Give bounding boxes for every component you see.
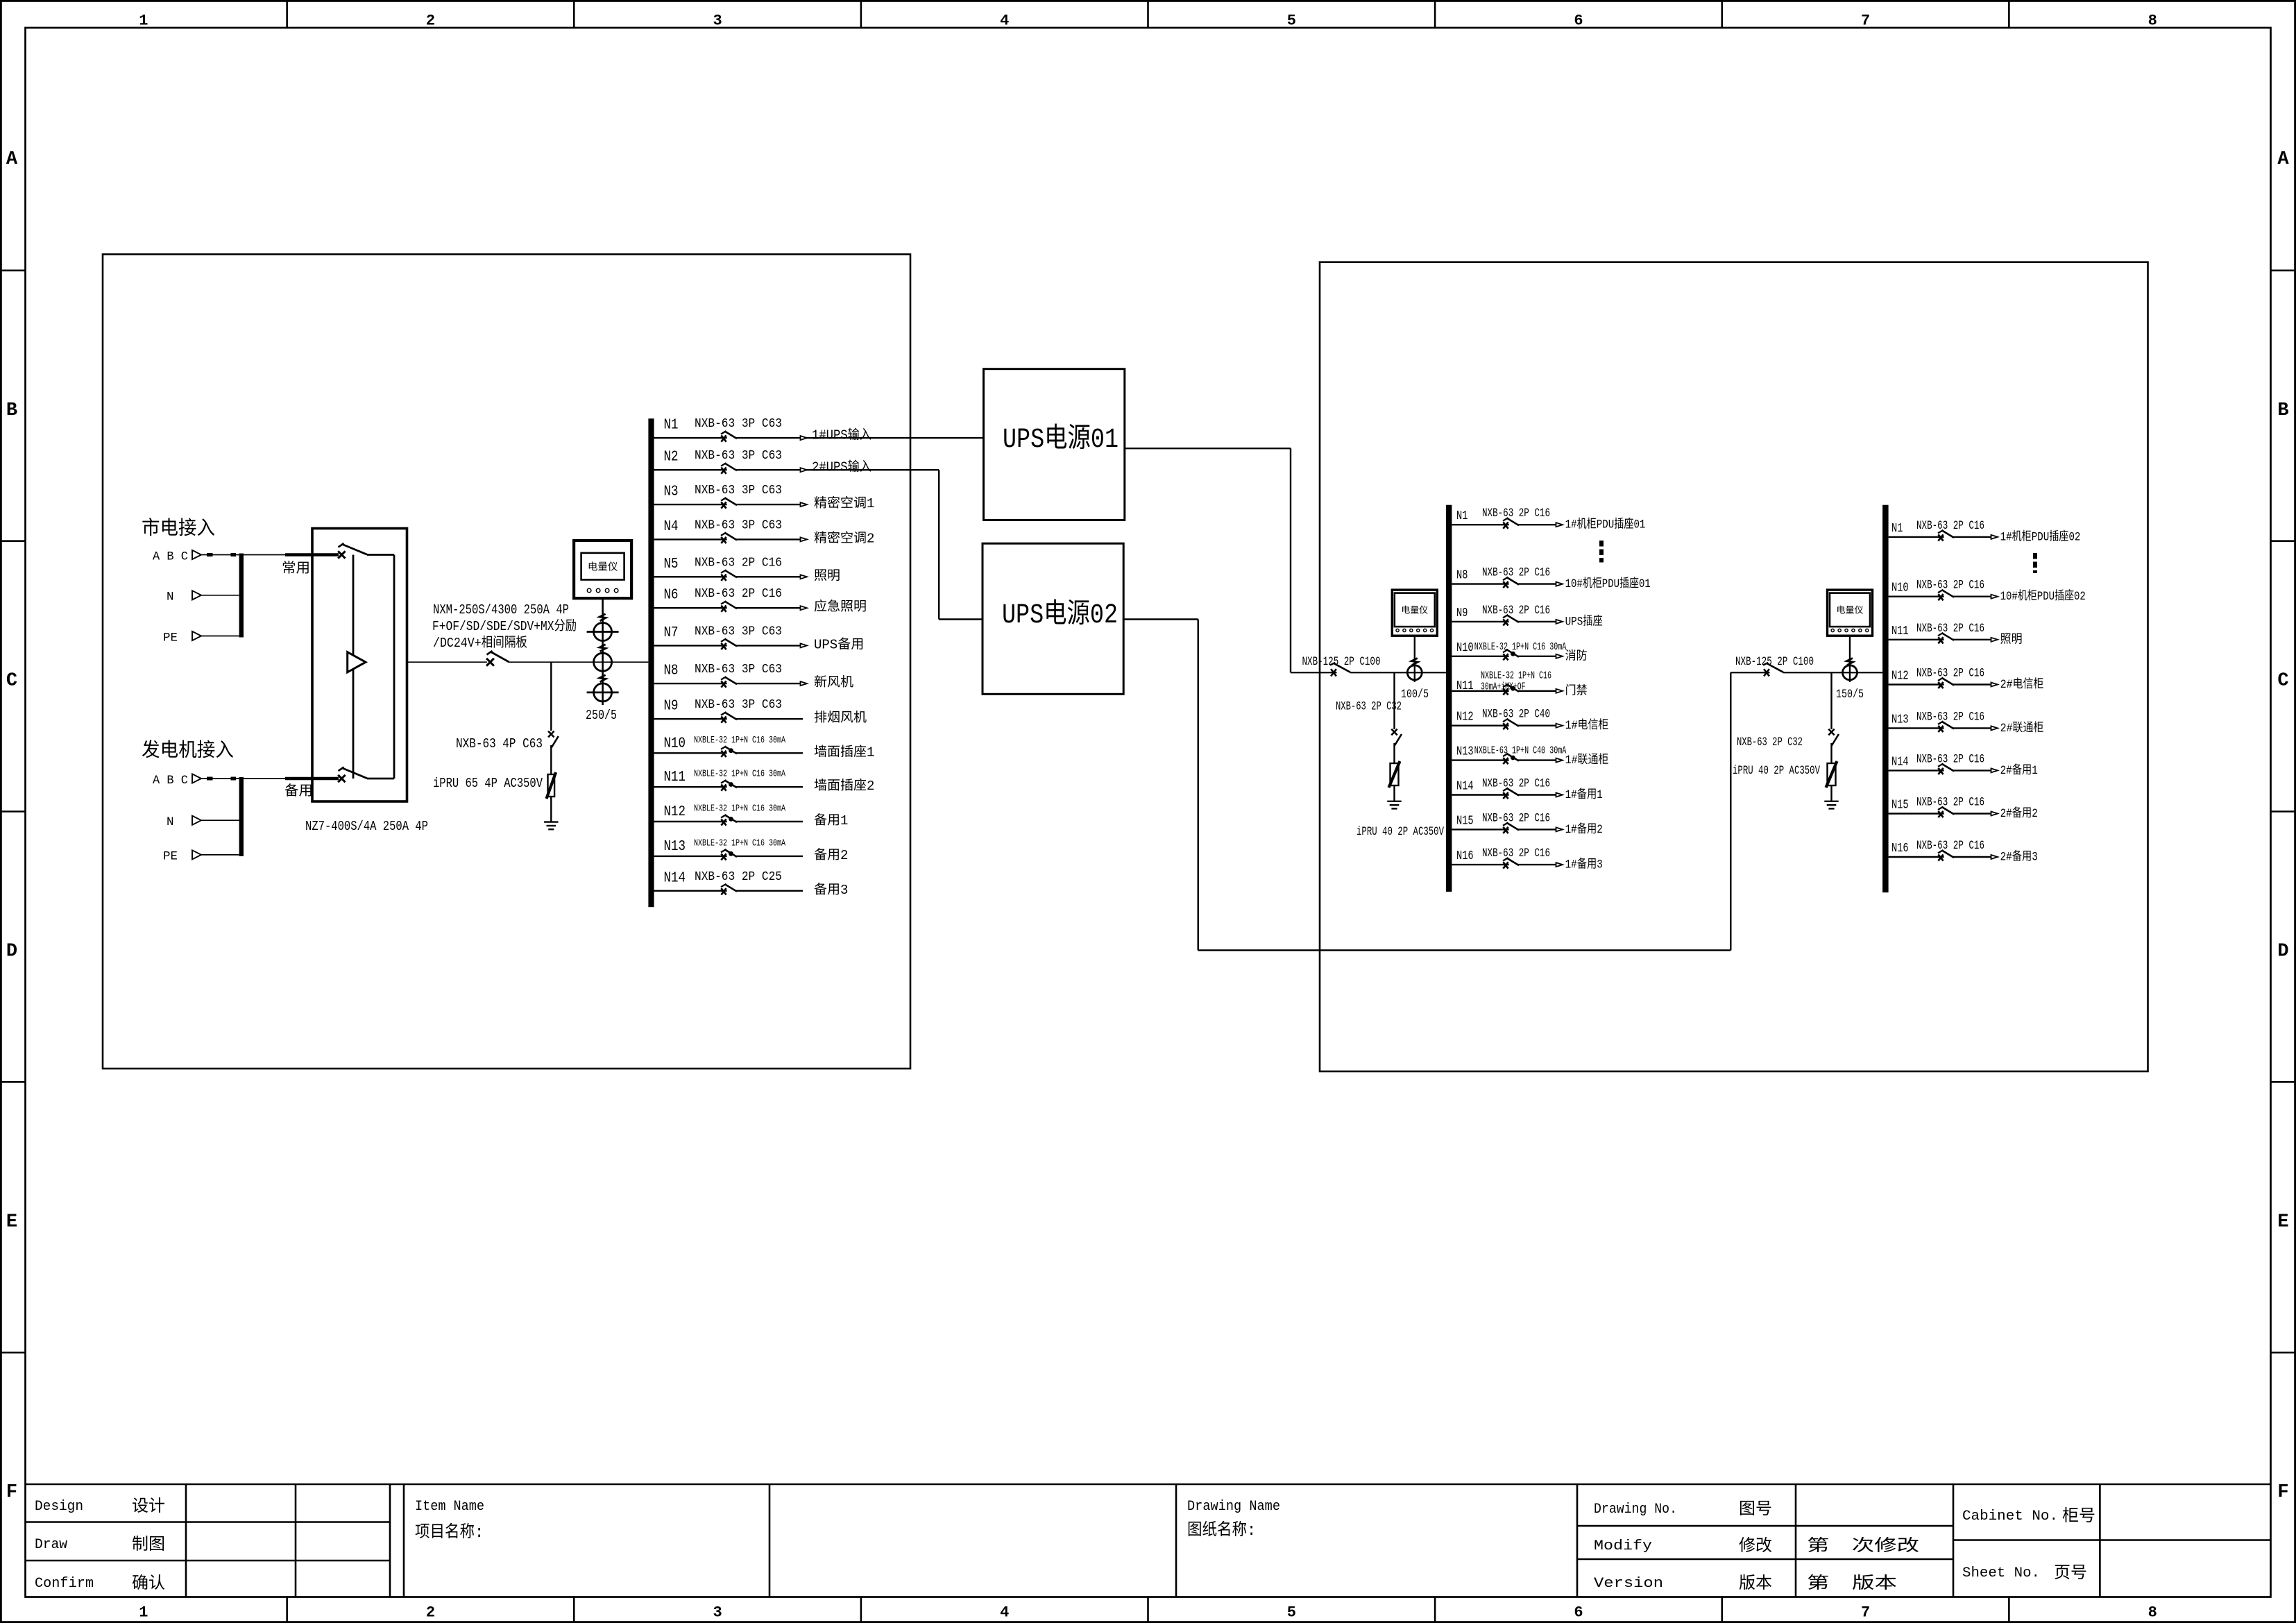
- wire N to generator bus: [201, 819, 239, 821]
- svg-text:A B C: A B C: [153, 774, 188, 788]
- svg-text:第 次修改: 第 次修改: [1807, 1536, 1919, 1556]
- svg-text:NXB-63 3P C63: NXB-63 3P C63: [695, 417, 782, 431]
- svg-text:1#备用1: 1#备用1: [1565, 788, 1603, 802]
- svg-text:门禁: 门禁: [1565, 683, 1588, 698]
- svg-text:NXM-250S/4300 250A 4P: NXM-250S/4300 250A 4P: [433, 602, 569, 618]
- panel-2 feeder N11 -> 照明: [1889, 622, 2023, 647]
- svg-text:PE: PE: [163, 631, 178, 645]
- svg-text:B: B: [6, 400, 17, 421]
- svg-text:NXB-63 3P C63: NXB-63 3P C63: [695, 484, 782, 498]
- svg-text:NXB-63 3P C63: NXB-63 3P C63: [695, 449, 782, 463]
- wire to SPD breaker panel-1: [1393, 672, 1395, 729]
- surge arrester iPRU 40 panel-1: [1389, 761, 1400, 788]
- svg-text:N3: N3: [664, 484, 679, 500]
- meter secondary wire through CTs: [602, 598, 604, 705]
- feeder N13 (NXBLE-32 1P+N C16 30mA) -> 备用2: [654, 838, 849, 863]
- svg-text:2#UPS输入: 2#UPS输入: [812, 459, 871, 475]
- svg-text:NXB-63 2P C16: NXB-63 2P C16: [695, 587, 782, 601]
- title block grid: [26, 1484, 2271, 1597]
- terminal arrow N (generator): [192, 816, 201, 825]
- label iPRU 40 2P AC350V panel-2: [1733, 764, 1820, 778]
- svg-text:iPRU 65 4P AC350V: iPRU 65 4P AC350V: [433, 776, 543, 791]
- svg-text:5: 5: [1287, 12, 1296, 30]
- wire ABC to mains bus (with link dashes): [201, 554, 239, 556]
- svg-text:NXB-63 2P C16: NXB-63 2P C16: [1916, 579, 1984, 593]
- svg-text:UPS电源01: UPS电源01: [1003, 423, 1119, 456]
- wire N2 feeder routed down to UPS02 input: [939, 470, 983, 619]
- feeder N5 (NXB-63 2P C16) -> 照明: [654, 556, 840, 584]
- wire to SPD breaker panel-2: [1830, 672, 1832, 729]
- svg-text:排烟风机: 排烟风机: [814, 711, 867, 726]
- label NZ7-400S/4A 250A 4P: [305, 819, 428, 834]
- distribution bus bar (main board): [648, 418, 654, 907]
- svg-text:NXB-63 2P C16: NXB-63 2P C16: [1916, 667, 1984, 681]
- svg-text:电量仪: 电量仪: [1836, 605, 1863, 615]
- svg-text:NXBLE-32 1P+N C16 30mA: NXBLE-32 1P+N C16 30mA: [694, 804, 785, 815]
- svg-text:N8: N8: [664, 663, 679, 679]
- svg-text:N10: N10: [664, 736, 686, 751]
- mains terminal bus bar: [239, 554, 244, 638]
- svg-text:N12: N12: [1891, 670, 1909, 683]
- feeder N1 (NXB-63 3P C63) -> 1#UPS输入: [654, 417, 984, 443]
- svg-text:iPRU 40 2P AC350V: iPRU 40 2P AC350V: [1357, 825, 1444, 839]
- svg-text:8: 8: [2148, 1604, 2157, 1622]
- svg-text:Modify: Modify: [1594, 1538, 1652, 1554]
- svg-text:NXBLE-32 1P+N C16 30mA: NXBLE-32 1P+N C16 30mA: [694, 735, 785, 746]
- svg-text:NXB-63 2P C16: NXB-63 2P C16: [1916, 710, 1984, 724]
- power meter 电量仪 panel-2: [1828, 590, 1873, 636]
- incomer breaker contact panel-2: [1763, 663, 1783, 677]
- svg-text:N4: N4: [664, 519, 679, 535]
- wire PE to mains bus: [201, 636, 239, 637]
- svg-text:消防: 消防: [1565, 649, 1588, 663]
- svg-text:设计: 设计: [132, 1497, 165, 1517]
- svg-text:4: 4: [1000, 1604, 1009, 1622]
- surge arrester iPRU 40 panel-2: [1826, 761, 1837, 788]
- current transformer CT3 250/5: [587, 683, 619, 702]
- svg-text:备用2: 备用2: [814, 847, 848, 863]
- svg-text:精密空调1: 精密空调1: [814, 495, 874, 511]
- label 备用 (standby source): [284, 783, 313, 800]
- meter wire panel-2: [1849, 636, 1851, 682]
- feeder N6 (NXB-63 2P C16) -> 应急照明: [654, 587, 867, 615]
- svg-text:NXBLE-32 1P+N C16 30mA: NXBLE-32 1P+N C16 30mA: [694, 838, 785, 849]
- svg-text:/DC24V+相间隔板: /DC24V+相间隔板: [433, 635, 527, 651]
- label 常用 (normal source): [282, 561, 310, 577]
- label phases A B C (mains): [153, 550, 188, 563]
- svg-text:1: 1: [139, 12, 148, 30]
- wire SPD breaker to arrester panel-2: [1830, 743, 1832, 763]
- generator terminal bus bar: [239, 777, 244, 856]
- svg-text:NXB-63 2P C16: NXB-63 2P C16: [1482, 811, 1550, 825]
- UPS distribution cabinet enclosure box: [1320, 262, 2148, 1071]
- label generator input 发电机接入: [142, 740, 234, 763]
- svg-text:NXB-63 2P C40: NXB-63 2P C40: [1482, 708, 1550, 722]
- wire ATS output to main breaker: [407, 661, 487, 663]
- svg-text:N14: N14: [1456, 780, 1474, 794]
- svg-text:A B C: A B C: [153, 550, 188, 563]
- SPD breaker NXB-63 2P C32 contact panel-2: [1828, 729, 1839, 746]
- svg-text:C: C: [2277, 671, 2288, 692]
- terminal arrow N (mains): [192, 590, 201, 600]
- svg-text:NXB-63 3P C63: NXB-63 3P C63: [695, 624, 782, 638]
- SPD breaker NXB-63 2P C32 contact panel-1: [1391, 729, 1402, 746]
- svg-text:Item Name: Item Name: [415, 1499, 484, 1515]
- svg-text:电量仪: 电量仪: [1401, 605, 1428, 615]
- svg-text:2#备用2: 2#备用2: [2000, 806, 2038, 821]
- panel-1 feeder N11 -> 门禁: [1452, 670, 1587, 698]
- panel-2 feeder N10 -> 10#机柜PDU插座02: [1889, 579, 2086, 604]
- svg-text:NXB-63 2P C16: NXB-63 2P C16: [1916, 839, 1984, 853]
- svg-text:150/5: 150/5: [1836, 688, 1864, 702]
- panel-1 feeder N10 -> 消防: [1452, 641, 1587, 664]
- feeder N7 (NXB-63 3P C63) -> UPS备用: [654, 624, 865, 652]
- svg-text:版本: 版本: [1739, 1574, 1772, 1594]
- svg-text:7: 7: [1861, 12, 1870, 30]
- svg-text:N12: N12: [1456, 711, 1474, 724]
- svg-text:1#UPS输入: 1#UPS输入: [812, 427, 871, 443]
- label NXB-63 4P C63: [456, 736, 543, 751]
- panel-2 feeder N15 -> 2#备用2: [1889, 796, 2038, 822]
- feeder N4 (NXB-63 3P C63) -> 精密空调2: [654, 518, 875, 546]
- svg-text:Cabinet No.: Cabinet No.: [1962, 1509, 2058, 1524]
- svg-text:N11: N11: [1891, 624, 1909, 638]
- svg-text:N13: N13: [1456, 745, 1474, 759]
- svg-text:N16: N16: [1456, 849, 1474, 863]
- title block labels: [35, 1497, 2095, 1594]
- label PE (mains): [163, 631, 178, 645]
- svg-text:2#联通柜: 2#联通柜: [2000, 721, 2044, 736]
- svg-text:照明: 照明: [814, 568, 840, 584]
- svg-text:2#备用3: 2#备用3: [2000, 850, 2038, 865]
- svg-text:常用: 常用: [282, 561, 310, 577]
- label iPRU 65 4P AC350V: [433, 776, 543, 791]
- label N (mains): [167, 590, 174, 604]
- svg-text:NXB-63 3P C63: NXB-63 3P C63: [695, 663, 782, 677]
- SPD breaker NXB-63 4P C63 contact: [548, 731, 559, 748]
- svg-text:N14: N14: [664, 870, 686, 886]
- svg-text:6: 6: [1574, 12, 1583, 30]
- svg-text:照明: 照明: [2000, 633, 2023, 647]
- UPS unit 01 box: [984, 369, 1125, 520]
- svg-text:1#电信柜: 1#电信柜: [1565, 718, 1609, 733]
- svg-text:N11: N11: [664, 770, 686, 785]
- current transformer 150/5 panel-2: [1843, 665, 1857, 680]
- svg-text:备用3: 备用3: [814, 882, 848, 898]
- wire PE to generator bus: [201, 854, 239, 856]
- ATS transfer switch NZ7-400S/4A: [312, 529, 407, 802]
- UPS unit 02 box: [983, 543, 1123, 694]
- terminal arrow PE (mains): [192, 631, 201, 640]
- svg-text:UPS备用: UPS备用: [814, 636, 864, 652]
- svg-text:N1: N1: [1891, 522, 1903, 536]
- svg-text:NXBLE-32 1P+N C16 30mA: NXBLE-32 1P+N C16 30mA: [694, 769, 785, 780]
- svg-text:UPS电源02: UPS电源02: [1002, 599, 1118, 631]
- svg-text:NXB-63 2P C16: NXB-63 2P C16: [1482, 604, 1550, 618]
- svg-text:N9: N9: [1456, 606, 1468, 620]
- svg-text:NXB-63 2P C32: NXB-63 2P C32: [1336, 700, 1402, 714]
- panel-2 feeder N16 -> 2#备用3: [1889, 839, 2038, 865]
- main LV board enclosure box: [103, 255, 910, 1069]
- svg-text:1#机柜PDU插座02: 1#机柜PDU插座02: [2000, 529, 2081, 544]
- CT squiggle panel-1: [1411, 658, 1418, 665]
- svg-text:第 版本: 第 版本: [1807, 1574, 1897, 1594]
- svg-text:Confirm: Confirm: [35, 1576, 94, 1592]
- feeder N10 (NXBLE-32 1P+N C16 30mA) -> 墙面插座1: [654, 735, 875, 760]
- distribution bus bar panel-1: [1446, 505, 1452, 892]
- label phases A B C (generator): [153, 774, 188, 788]
- svg-text:1: 1: [139, 1604, 148, 1622]
- svg-text:项目名称:: 项目名称:: [415, 1522, 484, 1543]
- terminal arrow PE (generator): [192, 850, 201, 859]
- svg-text:1#机柜PDU插座01: 1#机柜PDU插座01: [1565, 518, 1646, 532]
- feeder N11 (NXBLE-32 1P+N C16 30mA) -> 墙面插座2: [654, 769, 875, 794]
- svg-text:NXB-63 4P C63: NXB-63 4P C63: [456, 736, 543, 751]
- svg-text:NXB-63 2P C25: NXB-63 2P C25: [695, 870, 782, 884]
- current transformer CT1 250/5: [587, 623, 619, 641]
- svg-text:N14: N14: [1891, 755, 1909, 769]
- label NXM-250S/4300 250A 4P trip options: [432, 602, 577, 651]
- svg-text:4: 4: [1000, 12, 1009, 30]
- svg-text:Drawing No.: Drawing No.: [1594, 1502, 1677, 1518]
- panel-2 feeder N14 -> 2#备用1: [1889, 752, 2038, 778]
- svg-text:N: N: [167, 815, 174, 829]
- svg-text:NXB-63 2P C16: NXB-63 2P C16: [1482, 566, 1550, 580]
- svg-text:NXB-63 2P C16: NXB-63 2P C16: [1482, 847, 1550, 860]
- distribution bus bar panel-2: [1882, 505, 1889, 892]
- panel-1 feeder N15 -> 1#备用2: [1452, 811, 1602, 837]
- panel-1 feeder N14 -> 1#备用1: [1452, 777, 1602, 803]
- svg-text:E: E: [6, 1212, 17, 1232]
- svg-text:Sheet No.: Sheet No.: [1962, 1565, 2040, 1581]
- panel-1 feeder N12 -> 1#电信柜: [1452, 708, 1608, 733]
- svg-text:NXB-63 3P C63: NXB-63 3P C63: [695, 518, 782, 532]
- wire SPD breaker to arrester: [550, 745, 552, 774]
- svg-text:N5: N5: [664, 556, 679, 572]
- panel-2 feeder N1 -> 1#机柜PDU插座02: [1889, 519, 2081, 545]
- wire arrester to ground panel-1: [1393, 785, 1395, 801]
- svg-text:C: C: [6, 671, 17, 692]
- svg-text:D: D: [6, 941, 17, 962]
- label PE (generator): [163, 850, 178, 864]
- label NXB-63 2P C32 panel-2: [1737, 736, 1803, 749]
- label mains input 市电接入: [142, 518, 215, 541]
- svg-text:NXB-63 2P C16: NXB-63 2P C16: [1916, 796, 1984, 810]
- svg-text:3: 3: [713, 1604, 722, 1622]
- svg-text:6: 6: [1574, 1604, 1583, 1622]
- svg-text:2: 2: [426, 12, 435, 30]
- svg-text:N10: N10: [1891, 581, 1909, 595]
- svg-text:F: F: [6, 1482, 17, 1503]
- wire UPS01 output to panel-1 incomer: [1125, 448, 1291, 672]
- svg-text:N1: N1: [664, 418, 679, 434]
- svg-text:1#联通柜: 1#联通柜: [1565, 753, 1609, 767]
- svg-text:Version: Version: [1594, 1576, 1663, 1592]
- svg-text:发电机接入: 发电机接入: [142, 740, 234, 763]
- label NXB-125 2P C100 panel-1: [1302, 655, 1381, 669]
- svg-text:墙面插座1: 墙面插座1: [814, 744, 874, 760]
- panel-1 feeder N9 -> UPS插座: [1452, 604, 1602, 629]
- svg-text:N13: N13: [1891, 713, 1909, 726]
- svg-text:A: A: [6, 149, 18, 170]
- svg-text:10#机柜PDU插座02: 10#机柜PDU插座02: [2000, 589, 2086, 604]
- feeder N3 (NXB-63 3P C63) -> 精密空调1: [654, 484, 875, 511]
- svg-text:备用1: 备用1: [814, 813, 848, 829]
- svg-text:5: 5: [1287, 1604, 1296, 1622]
- panel-1 feeder N1 -> 1#机柜PDU插座01: [1452, 507, 1645, 532]
- svg-text:N: N: [167, 590, 174, 604]
- svg-text:页号: 页号: [2054, 1564, 2087, 1583]
- svg-text:NXB-63 3P C63: NXB-63 3P C63: [695, 698, 782, 712]
- svg-text:2#电信柜: 2#电信柜: [2000, 677, 2044, 692]
- svg-text:250/5: 250/5: [586, 708, 617, 723]
- wire ABC to generator bus (with link dashes): [201, 778, 239, 779]
- svg-text:NXBLE-32 1P+N C16 30mA: NXBLE-32 1P+N C16 30mA: [1474, 642, 1567, 653]
- svg-text:1#备用3: 1#备用3: [1565, 858, 1603, 872]
- svg-text:N1: N1: [1456, 509, 1468, 523]
- panel-2 omitted feeders continuation mark: [2033, 553, 2037, 573]
- svg-text:F+OF/SD/SDE/SDV+MX分励: F+OF/SD/SDE/SDV+MX分励: [432, 618, 577, 634]
- svg-text:10#机柜PDU插座01: 10#机柜PDU插座01: [1565, 577, 1651, 591]
- svg-text:A: A: [2277, 149, 2289, 170]
- svg-text:UPS插座: UPS插座: [1565, 614, 1603, 629]
- svg-text:D: D: [2277, 941, 2288, 962]
- svg-text:N9: N9: [664, 699, 679, 715]
- label iPRU 40 2P AC350V panel-1: [1357, 825, 1444, 839]
- CT secondary squiggle 1: [599, 614, 606, 621]
- svg-text:图纸名称:: 图纸名称:: [1187, 1520, 1256, 1540]
- wire SPD breaker to arrester panel-1: [1393, 743, 1395, 763]
- label N (generator): [167, 815, 174, 829]
- wire N to mains bus: [201, 595, 239, 596]
- svg-text:N15: N15: [1891, 799, 1909, 813]
- svg-text:NXB-63 2P C16: NXB-63 2P C16: [1916, 752, 1984, 766]
- svg-text:精密空调2: 精密空调2: [814, 530, 874, 546]
- svg-text:N8: N8: [1456, 569, 1468, 583]
- svg-text:修改: 修改: [1739, 1536, 1772, 1556]
- meter wire panel-1: [1414, 636, 1415, 682]
- panel-1 feeder N13 -> 1#联通柜: [1452, 745, 1608, 768]
- svg-text:NXB-63 2P C16: NXB-63 2P C16: [1916, 622, 1984, 636]
- svg-text:NXB-63 2P C16: NXB-63 2P C16: [1482, 777, 1550, 791]
- svg-text:2: 2: [426, 1604, 435, 1622]
- svg-text:备用: 备用: [284, 783, 313, 800]
- svg-text:N6: N6: [664, 588, 679, 604]
- svg-text:F: F: [2277, 1482, 2288, 1503]
- feeder N12 (NXBLE-32 1P+N C16 30mA) -> 备用1: [654, 804, 849, 829]
- svg-text:电量仪: 电量仪: [588, 561, 618, 573]
- power meter 电量仪 panel-1: [1392, 590, 1437, 636]
- feeder N14 (NXB-63 2P C25) -> 备用3: [654, 870, 849, 898]
- svg-text:N16: N16: [1891, 842, 1909, 856]
- svg-text:N10: N10: [1456, 641, 1474, 655]
- svg-text:Drawing Name: Drawing Name: [1187, 1499, 1280, 1515]
- svg-text:3: 3: [713, 12, 722, 30]
- terminal arrow ABC (mains): [192, 550, 201, 559]
- svg-text:N12: N12: [664, 804, 686, 820]
- wire arrester to ground: [550, 797, 552, 822]
- CT squiggle panel-2: [1847, 658, 1853, 665]
- svg-text:B: B: [2277, 400, 2288, 421]
- svg-text:新风机: 新风机: [814, 674, 853, 690]
- svg-text:图号: 图号: [1739, 1500, 1772, 1520]
- svg-text:NXBLE-32 1P+N C16: NXBLE-32 1P+N C16: [1481, 670, 1551, 681]
- label 250/5 CT ratio: [586, 708, 617, 723]
- feeder N8 (NXB-63 3P C63) -> 新风机: [654, 663, 853, 690]
- svg-text:NXB-63 2P C16: NXB-63 2P C16: [1916, 519, 1984, 533]
- svg-text:N15: N15: [1456, 814, 1474, 828]
- svg-text:N7: N7: [664, 625, 679, 641]
- svg-text:制图: 制图: [132, 1535, 165, 1555]
- CT secondary squiggle 3: [599, 675, 606, 682]
- svg-text:PE: PE: [163, 850, 178, 864]
- panel-2 feeder N13 -> 2#联通柜: [1889, 710, 2044, 736]
- svg-text:E: E: [2277, 1212, 2288, 1232]
- svg-text:2#备用1: 2#备用1: [2000, 763, 2038, 778]
- current transformer 100/5 panel-1: [1407, 665, 1422, 680]
- wire generator bus to ATS standby input: [244, 778, 339, 779]
- svg-text:N2: N2: [664, 450, 679, 466]
- svg-text:NXB-63 2P C16: NXB-63 2P C16: [1482, 507, 1550, 520]
- panel-1 feeder N16 -> 1#备用3: [1452, 847, 1602, 872]
- svg-text:7: 7: [1861, 1604, 1870, 1622]
- panel-1 feeder N8 -> 10#机柜PDU插座01: [1452, 566, 1650, 592]
- power meter 电量仪 (main board): [574, 541, 631, 598]
- wire main bus to SPD breaker: [550, 662, 552, 731]
- label 150/5 panel-2: [1836, 688, 1864, 702]
- wire incomer panel-2: [1730, 672, 1882, 673]
- panel-1 omitted feeders continuation mark: [1599, 541, 1604, 563]
- svg-text:NXB-63 2P C16: NXB-63 2P C16: [695, 556, 782, 570]
- svg-text:iPRU 40 2P AC350V: iPRU 40 2P AC350V: [1733, 764, 1820, 778]
- surge arrester iPRU 65: [547, 772, 556, 799]
- ground panel-1: [1387, 801, 1401, 809]
- CT secondary squiggle 2: [599, 645, 606, 652]
- wire incomer panel-1: [1291, 672, 1446, 673]
- incomer breaker contact panel-1: [1330, 663, 1350, 677]
- svg-text:Draw: Draw: [35, 1537, 67, 1553]
- feeder N2 (NXB-63 3P C63) -> 2#UPS输入: [654, 449, 939, 475]
- svg-text:市电接入: 市电接入: [142, 518, 215, 541]
- svg-text:100/5: 100/5: [1401, 688, 1429, 702]
- main breaker NXM-250S contact: [486, 651, 509, 666]
- wire UPS02 output routed to panel-2 incomer: [1123, 620, 1730, 951]
- svg-text:8: 8: [2148, 12, 2157, 30]
- svg-text:NXBLE-63 1P+N C40 30mA: NXBLE-63 1P+N C40 30mA: [1474, 746, 1567, 757]
- terminal arrow ABC (generator): [192, 774, 201, 783]
- current transformer CT2 250/5 (on feeder): [594, 653, 612, 671]
- label 100/5 panel-1: [1401, 688, 1429, 702]
- ground (main board SPD): [544, 822, 558, 830]
- svg-text:确认: 确认: [132, 1574, 165, 1594]
- feeder N9 (NXB-63 3P C63) -> 排烟风机: [654, 698, 867, 726]
- wire main breaker to distribution bus: [509, 661, 649, 663]
- label NXB-63 2P C32 panel-1: [1336, 700, 1402, 714]
- svg-text:NXB-63 2P C32: NXB-63 2P C32: [1737, 736, 1803, 749]
- svg-text:NZ7-400S/4A 250A 4P: NZ7-400S/4A 250A 4P: [305, 819, 428, 834]
- svg-text:1#备用2: 1#备用2: [1565, 822, 1603, 837]
- svg-text:应急照明: 应急照明: [814, 599, 867, 615]
- wire arrester to ground panel-2: [1830, 785, 1832, 801]
- svg-text:Design: Design: [35, 1499, 83, 1515]
- panel-2 feeder N12 -> 2#电信柜: [1889, 667, 2044, 692]
- ground panel-2: [1824, 801, 1838, 809]
- wire mains bus to ATS normal input: [244, 554, 339, 556]
- svg-text:墙面插座2: 墙面插座2: [814, 778, 874, 794]
- label NXB-125 2P C100 panel-2: [1735, 655, 1814, 669]
- svg-text:柜号: 柜号: [2062, 1506, 2095, 1527]
- svg-text:N13: N13: [664, 839, 686, 855]
